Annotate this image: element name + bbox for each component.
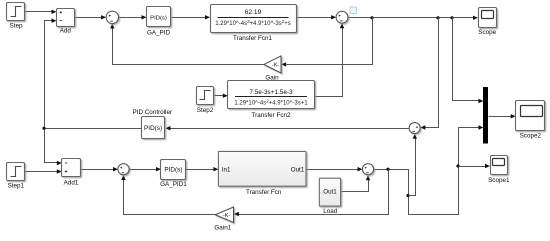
svg-text:7.5e-3s+1.5e-3: 7.5e-3s+1.5e-3 [249,89,293,96]
svg-text:1.29*10^-4s3+4.9*10^-3s2+s: 1.29*10^-4s3+4.9*10^-3s2+s [215,19,291,27]
svg-text:-K-: -K- [272,62,279,68]
svg-text:Out1: Out1 [291,166,305,173]
svg-text:Load: Load [323,208,338,215]
svg-text:PID Controller: PID Controller [133,109,173,116]
svg-text:GA_PID: GA_PID [147,30,171,37]
svg-text:Transfer Fcn: Transfer Fcn [246,189,282,196]
svg-text:Add1: Add1 [64,179,79,186]
svg-text:Out1: Out1 [323,189,337,196]
svg-text:Transfer Fcn2: Transfer Fcn2 [252,112,291,119]
svg-text:1.29*10^-4s2+4.9*10^-3s+1: 1.29*10^-4s2+4.9*10^-3s+1 [234,98,308,106]
svg-text:Transfer Fcn1: Transfer Fcn1 [233,35,272,42]
svg-text:62.19: 62.19 [245,9,262,16]
svg-text:-K-: -K- [223,213,230,219]
svg-text:Scope: Scope [478,29,496,36]
svg-text:Scope2: Scope2 [520,132,542,139]
svg-text:Add: Add [60,27,72,34]
svg-text:Step2: Step2 [197,107,214,114]
svg-text:PID(s): PID(s) [164,167,182,174]
svg-text:GA_PID1: GA_PID1 [160,181,187,188]
svg-text:Gain1: Gain1 [214,224,231,231]
svg-text:Gain: Gain [265,74,279,81]
svg-text:In1: In1 [222,166,231,173]
svg-text:Step1: Step1 [8,182,25,189]
svg-text:Step: Step [10,23,23,30]
svg-text:Scope1: Scope1 [488,177,510,184]
svg-text:PID(s): PID(s) [144,125,162,132]
svg-text:PID(s): PID(s) [150,15,167,21]
